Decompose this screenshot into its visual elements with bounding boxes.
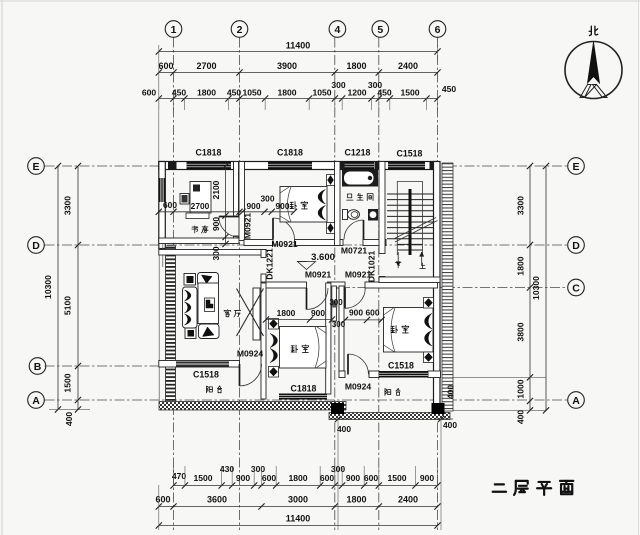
svg-text:4: 4 bbox=[334, 24, 340, 36]
svg-text:900: 900 bbox=[236, 473, 251, 483]
svg-text:2400: 2400 bbox=[398, 61, 418, 71]
door M0721 bathroom bbox=[344, 220, 364, 240]
small dims 300 shaft bbox=[329, 298, 345, 329]
balcony column left bbox=[331, 403, 344, 414]
svg-text:1500: 1500 bbox=[387, 473, 406, 483]
stair label down bbox=[395, 262, 401, 268]
room label balcony left bbox=[207, 386, 222, 393]
axis bubble 6 bbox=[429, 21, 446, 38]
study right wall bbox=[234, 162, 239, 244]
door M0921 bedroom2 bbox=[273, 218, 295, 240]
svg-text:900: 900 bbox=[420, 473, 435, 483]
label M0924 living bbox=[237, 349, 263, 359]
bedroom2 bottom wall / D wall bbox=[244, 240, 386, 246]
axis bubble A left bbox=[28, 392, 45, 409]
living room bottom wall bbox=[159, 361, 240, 368]
label M0921 study rot bbox=[243, 213, 253, 239]
corridor left wall stubs DK1221 bbox=[261, 250, 266, 284]
room label study bbox=[192, 226, 208, 233]
label C1818 top left bbox=[196, 148, 222, 158]
svg-text:600: 600 bbox=[366, 308, 380, 318]
svg-text:900: 900 bbox=[211, 217, 221, 231]
svg-text:1500: 1500 bbox=[193, 473, 212, 483]
bathroom toilet bbox=[343, 210, 360, 220]
interior dim column study 2100 900 300 bbox=[211, 163, 229, 261]
label M0921 bedroom2 door bbox=[271, 239, 297, 249]
axis bubble 1 bbox=[165, 21, 182, 38]
svg-text:470: 470 bbox=[172, 471, 187, 481]
interior dim bedroom4 900 600 bbox=[342, 308, 385, 324]
svg-text:600: 600 bbox=[262, 473, 277, 483]
front wall window C1818 bedroom bottom bbox=[279, 394, 327, 400]
bed bedroom4 bbox=[384, 308, 434, 353]
living room top wall bbox=[159, 250, 266, 256]
svg-text:3300: 3300 bbox=[63, 196, 73, 215]
window C1518 stair top bbox=[388, 162, 425, 170]
interior dim bedroom3 1800 900 bbox=[263, 308, 335, 323]
svg-text:900: 900 bbox=[247, 201, 261, 211]
svg-text:D: D bbox=[572, 240, 580, 252]
bed bedroom2 bbox=[280, 187, 327, 223]
top exterior wall bbox=[159, 162, 438, 170]
svg-text:400: 400 bbox=[337, 424, 351, 434]
svg-text:10300: 10300 bbox=[43, 275, 53, 299]
svg-text:1800: 1800 bbox=[288, 473, 307, 483]
axis line 4 bbox=[334, 38, 336, 531]
room label bedroom4 bbox=[391, 325, 408, 333]
svg-text:2400: 2400 bbox=[398, 495, 418, 505]
svg-text:450: 450 bbox=[172, 88, 187, 98]
svg-text:M0721: M0721 bbox=[341, 246, 367, 256]
bedroom4 left wall bbox=[339, 286, 344, 371]
label C1818 bedroom3 bottom bbox=[291, 384, 317, 394]
axis line 6 bbox=[437, 38, 439, 531]
svg-text:400: 400 bbox=[516, 410, 526, 425]
svg-text:A: A bbox=[32, 395, 40, 407]
svg-text:1000: 1000 bbox=[516, 379, 526, 398]
svg-text:450: 450 bbox=[227, 88, 242, 98]
right balcony front hatched wall bbox=[329, 413, 450, 420]
balcony column right bbox=[432, 403, 445, 414]
svg-text:2100: 2100 bbox=[211, 180, 221, 199]
svg-text:2700: 2700 bbox=[196, 61, 216, 71]
svg-text:300: 300 bbox=[211, 246, 221, 260]
svg-text:C: C bbox=[572, 282, 580, 294]
shaft wall middle bbox=[332, 286, 338, 321]
svg-text:900: 900 bbox=[276, 201, 290, 211]
svg-text:M0921: M0921 bbox=[271, 239, 297, 249]
top extension ticks bbox=[159, 45, 438, 162]
svg-text:C1218: C1218 bbox=[345, 148, 371, 158]
room label bedroom2 bbox=[290, 201, 307, 209]
svg-text:C1818: C1818 bbox=[196, 148, 222, 158]
right dim detail 3300 1800 3800 1000 400 bbox=[445, 163, 546, 424]
svg-text:600: 600 bbox=[320, 473, 335, 483]
axis line D bbox=[45, 244, 568, 246]
svg-text:M0921: M0921 bbox=[243, 213, 253, 239]
bottom dim row total 11400 bbox=[156, 485, 441, 530]
left dim detail 3300 5100 1500 400 bbox=[63, 163, 82, 426]
label M0921 hall right bbox=[345, 270, 371, 280]
bedroom3 right wall bbox=[326, 283, 331, 394]
axis bubble E right bbox=[568, 158, 585, 175]
label DK1021 rot bbox=[367, 251, 377, 283]
svg-text:400: 400 bbox=[443, 420, 457, 430]
svg-text:C1818: C1818 bbox=[291, 384, 317, 394]
svg-text:M0924: M0924 bbox=[237, 349, 263, 359]
svg-text:1050: 1050 bbox=[242, 88, 261, 98]
svg-text:600: 600 bbox=[158, 61, 173, 71]
svg-text:1800: 1800 bbox=[346, 495, 366, 505]
svg-text:2: 2 bbox=[237, 24, 243, 36]
bathroom left wall bbox=[335, 162, 341, 246]
study bottom wall bbox=[159, 238, 239, 244]
label M0924 bedroom4 balcony bbox=[345, 382, 371, 392]
front hatched wall bottom left bbox=[159, 402, 346, 411]
bottom dim row detail bbox=[170, 464, 440, 489]
svg-text:450: 450 bbox=[442, 84, 457, 94]
bathroom bathtub bbox=[342, 170, 378, 187]
north label bbox=[589, 26, 598, 35]
door M0924 bedroom4 to balcony bbox=[348, 354, 369, 375]
svg-text:11400: 11400 bbox=[286, 514, 311, 524]
svg-text:450: 450 bbox=[377, 88, 392, 98]
room label living bbox=[224, 310, 240, 317]
svg-text:900: 900 bbox=[311, 308, 325, 318]
door M0921 hall to bedroom3 bbox=[307, 288, 329, 310]
svg-text:600: 600 bbox=[155, 495, 170, 505]
svg-text:E: E bbox=[572, 161, 579, 173]
svg-text:5: 5 bbox=[377, 24, 383, 36]
label M0721 bbox=[341, 246, 367, 256]
axis bubble D left bbox=[28, 237, 45, 254]
bathroom right / stair left wall bbox=[379, 162, 385, 284]
svg-text:1500: 1500 bbox=[63, 373, 73, 392]
window C1518 living bottom bbox=[176, 362, 229, 367]
label C1518 living balcony bbox=[193, 370, 219, 380]
wall junction blobs top wall bbox=[168, 162, 438, 170]
svg-text:M0924: M0924 bbox=[345, 382, 371, 392]
window C1518 bedroom4 bottom bbox=[379, 371, 428, 378]
label C1518 bedroom4 bottom bbox=[388, 361, 414, 371]
svg-text:600: 600 bbox=[142, 88, 157, 98]
nightstands bedroom3 bbox=[269, 319, 279, 378]
tv cabinet with cross bbox=[237, 288, 264, 340]
svg-text:300: 300 bbox=[332, 320, 346, 329]
svg-text:300: 300 bbox=[261, 194, 275, 204]
dim 400 column left bbox=[332, 416, 351, 530]
bed bedroom3 bbox=[270, 327, 326, 369]
interior dim row study-bedroom bbox=[156, 194, 297, 215]
svg-text:3600: 3600 bbox=[207, 495, 227, 505]
svg-text:D: D bbox=[32, 240, 40, 252]
label DK1221 rot bbox=[265, 248, 275, 280]
axis bubble C right bbox=[568, 279, 585, 296]
axis bubble D right bbox=[568, 237, 585, 254]
window C1818 bedroom top bbox=[268, 162, 312, 170]
nightstands bedroom2 bbox=[327, 175, 335, 234]
svg-text:C1818: C1818 bbox=[277, 148, 303, 158]
svg-text:1800: 1800 bbox=[516, 256, 526, 275]
svg-text:1500: 1500 bbox=[400, 88, 419, 98]
svg-text:C1518: C1518 bbox=[388, 361, 414, 371]
label C1818 top mid bbox=[277, 148, 303, 158]
level mark 3.600 bbox=[297, 252, 335, 270]
bedroom4 bottom wall bbox=[339, 371, 441, 378]
label M0921 hall left bbox=[305, 270, 331, 280]
bathroom basin bbox=[368, 209, 378, 221]
axis line 5 bbox=[378, 38, 380, 531]
svg-text:1800: 1800 bbox=[277, 88, 296, 98]
svg-text:11400: 11400 bbox=[286, 41, 311, 51]
axis bubble 2 bbox=[231, 21, 248, 38]
svg-text:10300: 10300 bbox=[531, 276, 541, 300]
svg-text:3300: 3300 bbox=[516, 196, 526, 215]
window left wall study bbox=[159, 178, 166, 202]
svg-text:C1518: C1518 bbox=[397, 149, 423, 159]
north arrow bbox=[565, 42, 622, 99]
bottom dim row segments 600 3600 3000 1800 2400 bbox=[155, 495, 440, 510]
svg-text:600: 600 bbox=[163, 200, 177, 210]
svg-text:1050: 1050 bbox=[312, 88, 331, 98]
svg-text:300: 300 bbox=[331, 80, 346, 90]
bedroom3 left wall bbox=[261, 283, 266, 399]
nightstands bedroom4 bbox=[424, 298, 434, 363]
top dim row total 11400 bbox=[156, 41, 441, 55]
svg-text:E: E bbox=[32, 161, 39, 173]
svg-text:3800: 3800 bbox=[516, 322, 526, 341]
svg-text:2700: 2700 bbox=[191, 201, 210, 211]
svg-text:900: 900 bbox=[349, 308, 363, 318]
svg-text:1800: 1800 bbox=[277, 308, 296, 318]
staircase bbox=[387, 182, 438, 267]
title second floor plan bbox=[493, 481, 574, 495]
svg-text:400: 400 bbox=[64, 412, 74, 427]
axis line B bbox=[45, 365, 166, 367]
svg-text:3000: 3000 bbox=[288, 495, 308, 505]
window C1818 study top bbox=[187, 162, 232, 170]
svg-text:M0921: M0921 bbox=[345, 270, 371, 280]
svg-text:1: 1 bbox=[171, 24, 177, 36]
axis bubble E left bbox=[28, 158, 45, 175]
label C1518 top bbox=[397, 149, 423, 159]
svg-text:M0921: M0921 bbox=[305, 270, 331, 280]
svg-text:3900: 3900 bbox=[277, 61, 297, 71]
corridor bottom wall C bbox=[261, 282, 438, 288]
axis bubble A right bbox=[568, 392, 585, 409]
living room sofa set bbox=[183, 273, 220, 339]
axis bubble B left bbox=[29, 358, 46, 375]
room label bathroom bbox=[347, 193, 373, 200]
axis line E bbox=[45, 165, 568, 167]
top dim row segments 600 2700 3900 1800 2400 bbox=[156, 61, 441, 76]
study desk bbox=[180, 182, 211, 219]
svg-text:6: 6 bbox=[435, 24, 441, 36]
room label bedroom3 bbox=[291, 345, 308, 353]
stair hall bottom wall bbox=[379, 277, 440, 283]
door M0921 hall to bedroom4 bbox=[345, 288, 365, 308]
dim 400 column right bbox=[435, 416, 457, 530]
svg-text:1800: 1800 bbox=[346, 61, 366, 71]
label C1218 top bbox=[345, 148, 371, 158]
bedroom2 left wall bbox=[239, 162, 245, 241]
room label balcony right bbox=[385, 388, 400, 395]
svg-text:C1518: C1518 bbox=[193, 370, 219, 380]
right dim overall 10300 bbox=[531, 163, 549, 414]
svg-text:DK1221: DK1221 bbox=[265, 248, 275, 280]
dim 400 balcony side rot bbox=[446, 385, 456, 399]
svg-text:1800: 1800 bbox=[197, 88, 216, 98]
svg-text:300: 300 bbox=[329, 298, 343, 307]
svg-text:900: 900 bbox=[346, 473, 361, 483]
axis line C bbox=[340, 287, 568, 289]
window C1218 bathroom top bbox=[345, 162, 375, 170]
axis line 2 bbox=[239, 38, 241, 531]
right outside hatched strip bbox=[442, 163, 453, 411]
top dim row detail bbox=[142, 80, 457, 102]
svg-text:A: A bbox=[572, 395, 580, 407]
axis line A bbox=[45, 399, 568, 401]
svg-text:600: 600 bbox=[364, 473, 379, 483]
door M0921 study bbox=[219, 217, 240, 238]
stair label up bbox=[420, 263, 426, 269]
axis bubble 5 bbox=[372, 21, 389, 38]
left dim overall 10300 bbox=[43, 163, 90, 413]
axis bubble 4 bbox=[329, 21, 346, 38]
right exterior wall bbox=[434, 162, 441, 413]
svg-text:B: B bbox=[34, 361, 42, 373]
axis line 1 bbox=[173, 38, 175, 531]
door M0924 living to balcony bbox=[240, 364, 262, 386]
svg-text:1200: 1200 bbox=[347, 88, 366, 98]
left hatched wall lower bbox=[159, 244, 175, 402]
svg-text:5100: 5100 bbox=[63, 296, 73, 315]
svg-text:400: 400 bbox=[446, 385, 456, 399]
left exterior wall upper bbox=[159, 162, 166, 249]
